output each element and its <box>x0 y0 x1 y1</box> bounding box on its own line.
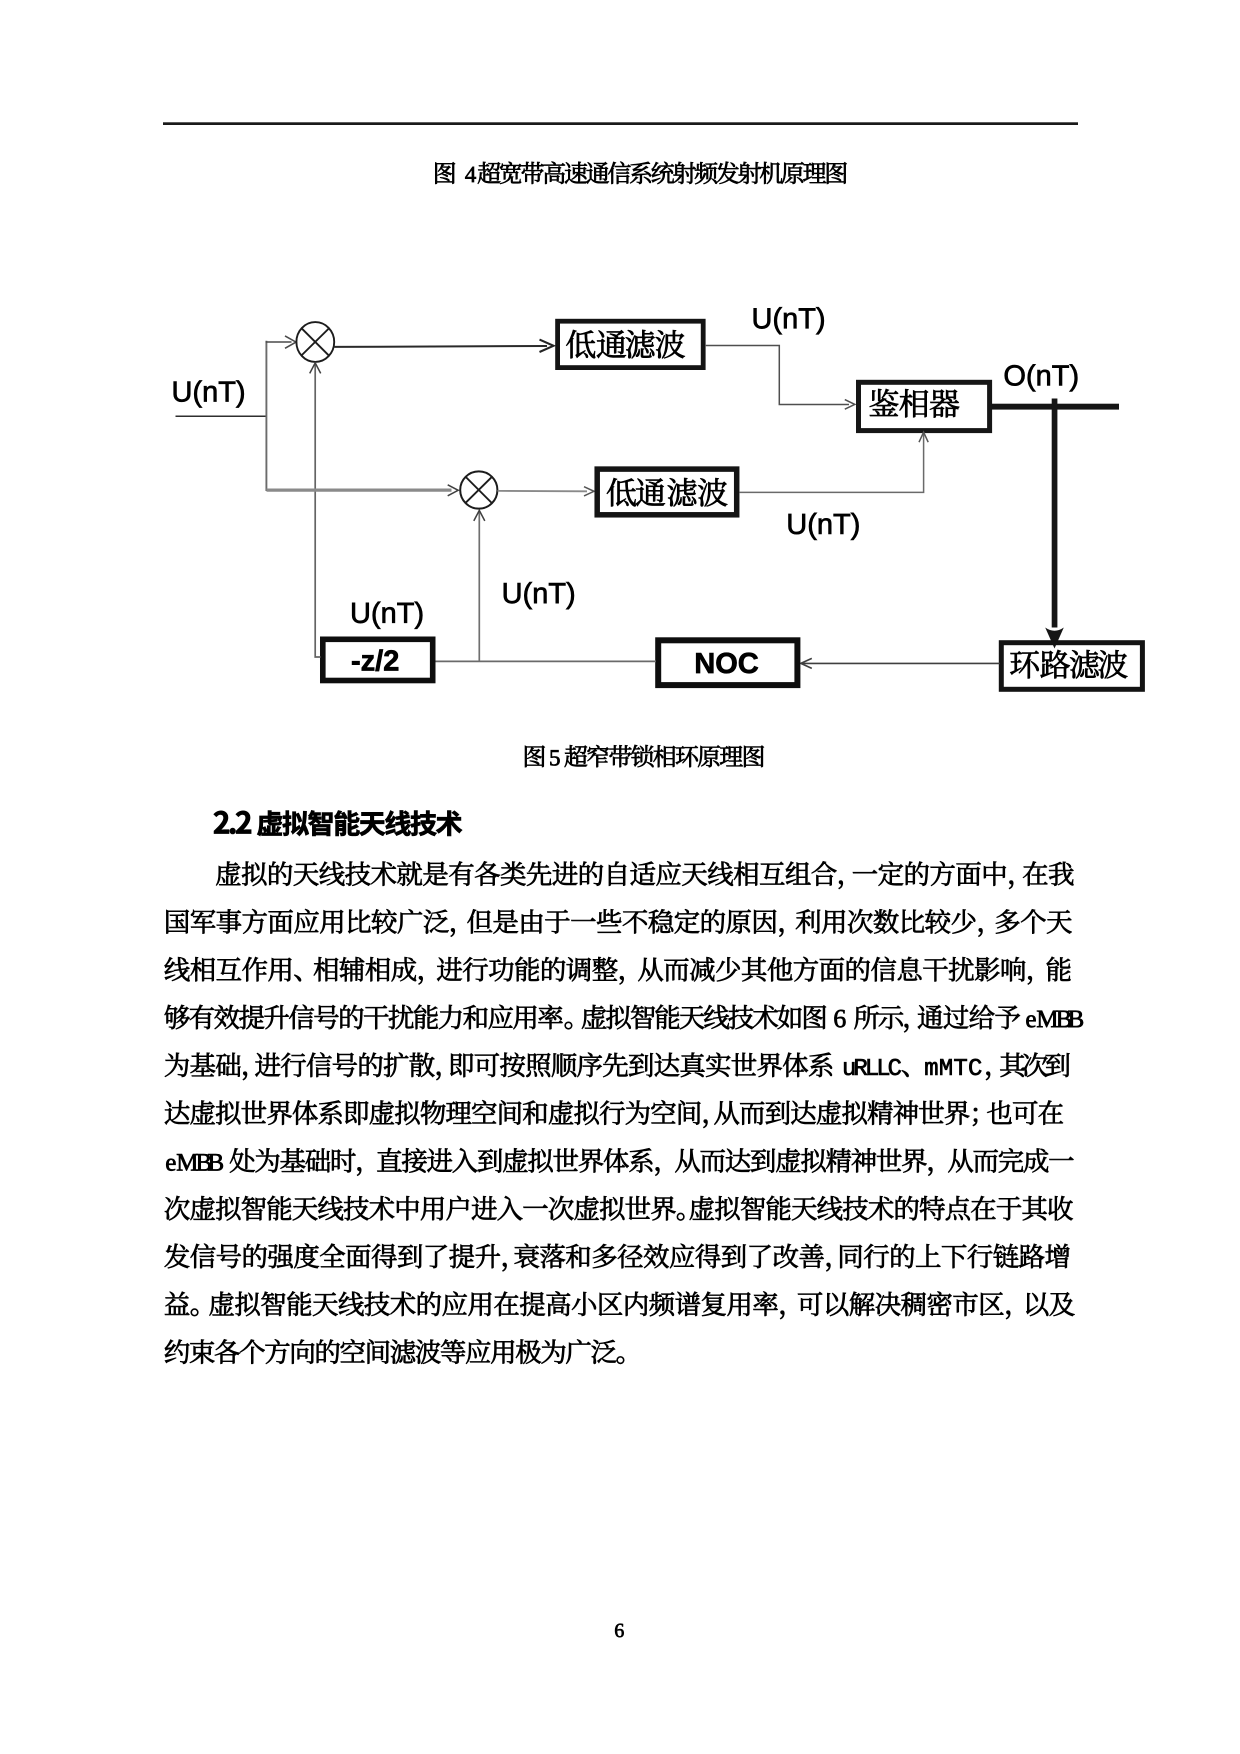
box LPF2 低通滤波 <box>597 469 737 515</box>
label LPF2 text 低通滤波 <box>607 478 727 506</box>
wire into mixer M1 with arrowhead <box>266 341 292 343</box>
label LF text 环路滤波 <box>1010 650 1127 679</box>
box LF 环路滤波 <box>1001 643 1142 690</box>
body line 10 <box>165 1291 1075 1319</box>
header rule <box>163 122 1078 125</box>
box LPF1 低通滤波 <box>558 321 704 367</box>
wire: input vertical trunk <box>265 341 267 491</box>
label U(nT) above LPF1 <box>754 307 824 334</box>
body line 3 <box>165 957 1071 985</box>
label U(nT) mid <box>504 582 574 609</box>
label -z/2 text <box>352 649 398 671</box>
body line 9 <box>165 1244 1070 1272</box>
caption figure 5 <box>525 746 545 768</box>
page number 6 <box>615 1624 624 1637</box>
label LPF1 text 低通滤波 <box>566 330 685 358</box>
box NOC <box>658 640 797 685</box>
body line 2 <box>166 909 1071 937</box>
wire LF to NOC with arrowhead <box>802 662 1000 664</box>
body line 6 <box>165 1100 1063 1128</box>
label NOC text <box>696 653 758 674</box>
label U(nT) above -z/2 <box>352 602 422 629</box>
wire: input stub under U(nT) label <box>176 415 268 417</box>
caption figure 4 <box>435 162 455 184</box>
mixer M2 (circle with X) <box>460 471 497 508</box>
wire NOC to -z/2 <box>436 660 657 662</box>
wire LPF2 to PD bottom with arrowhead up <box>740 434 924 493</box>
box -z/2 <box>323 639 433 680</box>
branch horizontal wire to mixer M2 <box>267 489 452 492</box>
body line 4 <box>165 1005 826 1030</box>
body line 5 <box>165 1052 832 1080</box>
wire LPF1 to PD (right, down, right) with arrowhead <box>706 346 849 405</box>
wire -z/2 up into mixer M1 bottom with arrowhead <box>315 364 320 658</box>
branch vertical up into mixer M2 with arrowhead <box>478 512 480 661</box>
body line 1 <box>216 861 1073 889</box>
mixer M1 (circle with X) <box>296 322 334 362</box>
thick vertical drop to LF <box>1052 399 1058 628</box>
thick output line from PD <box>991 404 1119 410</box>
body line 11 <box>165 1339 624 1364</box>
label O(nT) output <box>1005 364 1078 391</box>
filled arrowhead into LF <box>1045 628 1064 649</box>
box PD 鉴相器 <box>859 382 990 430</box>
body line 8 <box>165 1196 1073 1221</box>
label U(nT) input <box>174 380 244 407</box>
wire M2 output to LPF2 with arrowhead <box>498 490 588 492</box>
body line 7 <box>166 1154 223 1171</box>
wire M1 output to LPF1 with arrowhead <box>334 345 547 348</box>
label U(nT) below LPF2 <box>789 513 859 540</box>
label PD text 鉴相器 <box>870 389 959 418</box>
heading 2.2 <box>214 811 251 834</box>
